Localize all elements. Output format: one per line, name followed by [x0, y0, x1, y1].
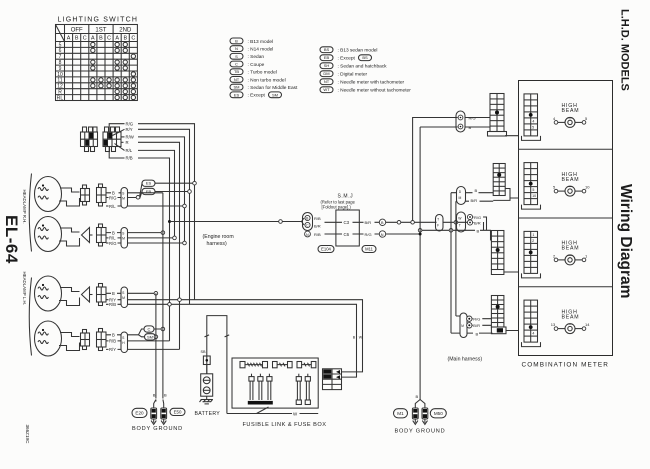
svg-text:C: C [83, 36, 87, 42]
svg-text:C3: C3 [344, 220, 350, 225]
svg-text:5: 5 [532, 125, 534, 129]
svg-text:N: N [306, 233, 309, 237]
svg-text:EB: EB [324, 55, 330, 60]
legend badge WT [320, 87, 333, 93]
svg-text:4: 4 [532, 119, 534, 123]
headlamp bulb 3 [35, 276, 80, 311]
legend badge BS [320, 47, 333, 53]
svg-text:B/R: B/R [314, 224, 321, 229]
svg-text:C: C [131, 36, 135, 42]
svg-text:EL-64: EL-64 [2, 215, 21, 264]
wire R/Y horizontal run and drop [138, 129, 190, 304]
fuse at x=298.3 [296, 374, 301, 400]
fuse at x=268.9 [267, 374, 272, 400]
svg-text:BS: BS [362, 55, 368, 60]
svg-text:R/L: R/L [126, 148, 133, 153]
battery ground hatch [200, 396, 213, 404]
pointer from W wire to fuse bus bar [257, 407, 269, 414]
lighting switch SW1 row labels and contacts [57, 42, 64, 101]
wire R/B horizontal run and drop [138, 158, 170, 341]
headlamp 1 wire R/G through ES/EB branch [106, 184, 142, 199]
svg-text:N: N [381, 233, 384, 237]
svg-text:DM: DM [323, 71, 329, 76]
svg-text:: B13 sedan model: : B13 sedan model [338, 48, 378, 54]
fuse box side connector grid [323, 369, 342, 390]
svg-text:M: M [459, 196, 462, 200]
svg-text:BS: BS [324, 47, 330, 52]
svg-text:BEAM: BEAM [562, 108, 580, 114]
badge SM on branch [145, 334, 156, 340]
svg-text:ES: ES [146, 181, 152, 186]
svg-text:B: B [123, 36, 127, 42]
connector pill WT [457, 212, 466, 232]
svg-text:B: B [416, 394, 419, 399]
svg-text:: Sedan: : Sedan [248, 54, 265, 60]
svg-text:OFF: OFF [71, 28, 83, 34]
svg-text:R/G: R/G [365, 232, 372, 237]
svg-text:: Except: : Except [248, 93, 266, 99]
vertical feed R/G to meter connector M24 [413, 118, 458, 223]
svg-text:BATTERY: BATTERY [195, 411, 221, 417]
svg-text:T: T [459, 224, 461, 228]
svg-text:SM: SM [147, 334, 153, 339]
svg-text:COMBINATION METER: COMBINATION METER [522, 362, 609, 369]
legend badge B [230, 38, 243, 44]
svg-text:2: 2 [532, 239, 534, 243]
connector pill M24 (needle meter w/ tach) [456, 111, 465, 132]
fuse at x=259.9 [258, 374, 263, 400]
combination meter box [519, 81, 613, 356]
connector badge E20 [132, 408, 147, 417]
svg-text:NT: NT [234, 77, 240, 82]
svg-text:B/R: B/R [474, 221, 481, 226]
svg-text:R/G: R/G [473, 317, 480, 322]
headlamp 4 wire R/B [106, 340, 170, 342]
connector badge E50 [170, 408, 185, 415]
connector pill DM (digital meter) [457, 187, 466, 205]
headlamp 2 connector pill [121, 228, 128, 249]
svg-text:: Digital meter: : Digital meter [338, 72, 368, 78]
svg-text:HEADLAMP R.H.: HEADLAMP R.H. [22, 190, 27, 224]
svg-text:: Needle meter without tachome: : Needle meter without tachometer [338, 88, 412, 94]
svg-text:A: A [115, 36, 119, 42]
headlamp 1 wire B to ground trunk [106, 192, 163, 194]
svg-text:B/R: B/R [365, 220, 372, 225]
svg-text:10: 10 [532, 194, 536, 198]
WT pin sockets [467, 214, 472, 219]
svg-text:M: M [122, 296, 125, 300]
svg-text:C: C [107, 36, 111, 42]
legend badge NT [320, 79, 333, 85]
2-pin pass-through connector [436, 215, 444, 232]
svg-text:(Main harness): (Main harness) [448, 357, 483, 363]
legend badge TB [230, 69, 243, 75]
headlamp 1 wire R/L [106, 205, 185, 207]
svg-text:ES: ES [234, 92, 240, 97]
legend badge ES [230, 92, 243, 98]
svg-text:BODY GROUND: BODY GROUND [395, 429, 446, 435]
connector badge M50 [430, 409, 446, 418]
svg-text:SB: SB [201, 350, 207, 354]
legend badge C [230, 61, 243, 67]
connector badge M1 [394, 409, 408, 418]
svg-text:S: S [235, 54, 238, 59]
ground symbol at E20 [151, 408, 157, 424]
svg-text:R/G: R/G [109, 196, 116, 201]
fuse bus bar [248, 401, 273, 405]
svg-text:: Sedan and hatchback: : Sedan and hatchback [338, 64, 388, 70]
svg-text:BEAM: BEAM [562, 246, 580, 252]
headlamp 1 connector pill [121, 188, 128, 209]
legend badge SH [320, 63, 333, 69]
svg-text:: Needle meter with tachometer: : Needle meter with tachometer [338, 80, 405, 86]
svg-text:BEAM: BEAM [562, 177, 580, 183]
svg-text:NT: NT [324, 79, 330, 84]
svg-text:E20: E20 [135, 410, 144, 415]
svg-text:B: B [153, 393, 156, 398]
svg-text:13: 13 [551, 322, 556, 327]
S.M.J left pin N with wire R/B [305, 231, 311, 237]
svg-text:B: B [112, 230, 115, 235]
legend badge DM [320, 71, 333, 77]
trunk wires to DM connector [451, 193, 457, 202]
fusible link 2 [273, 362, 293, 368]
S.M.J left pins B/C [302, 218, 305, 225]
headlamp bulb 2 [35, 217, 80, 252]
ground symbol at M50 [422, 408, 428, 424]
lighting switch SW1 contact table [56, 25, 138, 101]
fusible link 3 [297, 362, 316, 368]
svg-text:W: W [359, 336, 363, 340]
fusible link 1 [240, 362, 268, 368]
svg-text:(Engine room: (Engine room [203, 234, 234, 240]
body ground E20/E50 fork [154, 400, 164, 409]
svg-text:[Foldout page].): [Foldout page].) [322, 205, 352, 210]
svg-text:: Sedan for Middle East: : Sedan for Middle East [248, 85, 299, 91]
wire to WT lower pin [420, 229, 466, 231]
ground wire trunk to E50 (from headlamp 1 B) [162, 193, 164, 399]
headlamp 1 plug pair [81, 185, 90, 205]
wire R/B bus to S.M.J [170, 221, 302, 223]
svg-text:: B13 model: : B13 model [248, 39, 274, 45]
junction on wire R/B (feed to S.M.J) [168, 220, 171, 223]
svg-text:R/B: R/B [314, 232, 321, 237]
lighting switch SW1 header labels [71, 28, 132, 34]
fuse box outline [232, 358, 318, 408]
connector badge E104 [318, 246, 334, 253]
battery supply bracket [207, 316, 227, 414]
svg-text:SM: SM [272, 92, 278, 97]
svg-text:R/B: R/B [109, 302, 116, 307]
svg-text:10: 10 [585, 185, 590, 190]
svg-text:: Coupe: : Coupe [248, 62, 265, 68]
wire B/R bus continues to meter connectors [398, 221, 437, 223]
svg-text:M: M [122, 197, 125, 201]
wire R/W horizontal run and drop [138, 137, 185, 243]
bracket headlamp L.H. [29, 278, 31, 356]
svg-text:B: B [475, 188, 478, 193]
main harness connector MH1 [488, 94, 507, 137]
svg-text:C6: C6 [344, 232, 350, 237]
svg-text:M50: M50 [434, 411, 443, 416]
headlamp 2 wires [106, 232, 163, 234]
svg-text:R/B: R/B [109, 339, 116, 344]
headlamp 4 connector pill [121, 332, 128, 353]
connector pill (meter sub-harness, lower) [460, 313, 467, 338]
svg-text:E104: E104 [321, 247, 331, 252]
battery [201, 374, 213, 396]
svg-text:5: 5 [532, 188, 534, 192]
svg-text:R/G: R/G [126, 121, 134, 126]
legend badge EB [320, 55, 333, 61]
svg-text:E50: E50 [174, 409, 182, 414]
S.M.J box [336, 210, 359, 246]
svg-text:T: T [437, 218, 439, 222]
svg-text:: Non turbo model: : Non turbo model [248, 77, 286, 83]
svg-text:SH: SH [324, 63, 330, 68]
svg-text:L.H.D. MODELS: L.H.D. MODELS [619, 9, 631, 91]
svg-text:R/L: R/L [109, 236, 116, 241]
svg-text:M: M [461, 324, 464, 328]
svg-text:2ND: 2ND [119, 28, 132, 34]
svg-text:R/W: R/W [126, 135, 135, 140]
svg-text:RL: RL [57, 95, 64, 101]
connector E1 (engine room, left block) [81, 127, 98, 152]
badge ES on branch [142, 180, 155, 186]
svg-text:WT: WT [323, 87, 330, 92]
svg-text:SM: SM [234, 85, 240, 90]
svg-text:R/B: R/B [314, 216, 321, 221]
legend badge SM [230, 84, 243, 90]
badge C on branch [144, 326, 154, 332]
svg-text:B: B [235, 38, 238, 43]
svg-text:14: 14 [585, 322, 590, 327]
legend badge NT [230, 77, 243, 83]
svg-text:B/R: B/R [471, 198, 478, 203]
ground symbol at E50 [161, 408, 167, 424]
svg-text:M: M [122, 237, 125, 241]
svg-text:C: C [148, 327, 151, 332]
headlamp bulb 4 [35, 321, 80, 356]
svg-text:B: B [112, 333, 115, 338]
connector badge M11 [362, 246, 376, 253]
wire W from battery along fuse box bottom [227, 413, 318, 415]
wires into main harness block MH1 [465, 118, 490, 128]
svg-text:TB: TB [234, 69, 239, 74]
svg-text:B: B [75, 36, 79, 42]
headlamp 3 wire R/B merges into loop to fuse box [106, 304, 357, 377]
badge EB on branch [142, 188, 155, 194]
svg-text:HEADLAMP L.H.: HEADLAMP L.H. [22, 272, 27, 305]
legend badge N [230, 46, 243, 52]
svg-text:R/B: R/B [126, 156, 133, 161]
svg-text:B/R: B/R [473, 323, 480, 328]
bracket headlamp R.H. [29, 174, 31, 252]
main harness connector MH4 [491, 296, 504, 328]
main harness connector MH3 [491, 231, 504, 270]
headlamp 3 connector pill [121, 287, 128, 308]
svg-text:B: B [99, 36, 103, 42]
svg-text:1: 1 [532, 233, 534, 237]
svg-text:R: R [126, 140, 129, 145]
svg-text:A: A [91, 36, 95, 42]
wire R horizontal run and drop [138, 142, 180, 349]
svg-text:BEAM: BEAM [562, 314, 580, 320]
svg-text:: Except: : Except [338, 56, 356, 62]
svg-text:R/Y: R/Y [109, 347, 116, 352]
wire stubs from connector E2 to labels [109, 124, 124, 158]
headlamp 3 wire R/Y merges into loop to fuse box [106, 300, 363, 372]
svg-text:1ST: 1ST [95, 28, 106, 34]
meter connector section 4 [524, 300, 538, 342]
vertical feed B to body ground M1/M50 [420, 127, 457, 400]
svg-text:R/Y: R/Y [126, 127, 133, 132]
legend badge S [230, 53, 243, 59]
stub wires from main harness connectors to meter box [504, 136, 519, 331]
svg-text:EB: EB [146, 189, 152, 194]
meter connector section 3 [524, 231, 538, 273]
meter connector section 2 [524, 163, 538, 205]
wires from WT into block MH3 [473, 217, 487, 231]
svg-text:B: B [112, 291, 115, 296]
connector E2 (engine room, right block) [103, 127, 121, 152]
fuse at x=251 [249, 374, 254, 400]
svg-text:C: C [235, 62, 238, 67]
svg-text:Wiring Diagram: Wiring Diagram [617, 184, 634, 298]
svg-text:366Z19C: 366Z19C [25, 425, 30, 445]
svg-text:: N14 model: : N14 model [248, 47, 274, 53]
svg-text:: Turbo model: : Turbo model [248, 70, 277, 76]
lower cluster pin sockets [467, 316, 472, 321]
meter connector section 1 [524, 94, 538, 136]
wire R/G horizontal run and drop [138, 124, 195, 300]
svg-text:B: B [476, 332, 479, 337]
fuse at x=307.3 [305, 374, 310, 400]
svg-text:R/G: R/G [474, 215, 481, 220]
S.M.J pin C6 [325, 233, 364, 235]
headlamp 4 wire R/Y [106, 348, 180, 350]
svg-text:LIGHTING SWITCH: LIGHTING SWITCH [58, 17, 139, 24]
svg-text:F: F [437, 224, 439, 228]
ground symbol at M1 [412, 408, 418, 424]
headlamp 2 plug pair [82, 228, 93, 243]
svg-text:4: 4 [532, 332, 534, 336]
headlamp 4 plug pair [81, 330, 90, 350]
svg-text:R/L: R/L [109, 204, 116, 209]
main harness connector MH2 [493, 164, 505, 196]
svg-text:N: N [235, 46, 238, 51]
svg-text:FUSIBLE LINK & FUSE BOX: FUSIBLE LINK & FUSE BOX [243, 422, 327, 428]
svg-text:M1: M1 [397, 411, 404, 416]
svg-text:B: B [164, 393, 167, 398]
wires from trunks into lower cluster [451, 316, 460, 333]
svg-text:R/G: R/G [109, 241, 116, 246]
svg-text:B: B [477, 228, 480, 233]
svg-text:A: A [67, 36, 71, 42]
headlamp bulb 1 [35, 177, 80, 212]
headlamp 4 wire B through C/SM branch [106, 334, 139, 336]
S.M.J pin C3 [325, 221, 364, 223]
svg-text:BODY GROUND: BODY GROUND [132, 426, 183, 432]
headlamp 3 plug pair [82, 287, 93, 302]
svg-text:harness): harness) [207, 241, 227, 247]
ground wire trunk to E20 (from headlamp 3 B) [155, 293, 157, 398]
headlamp 3 wires [106, 292, 156, 294]
wire R/L horizontal run and drop [138, 150, 175, 238]
svg-text:M11: M11 [365, 247, 374, 252]
